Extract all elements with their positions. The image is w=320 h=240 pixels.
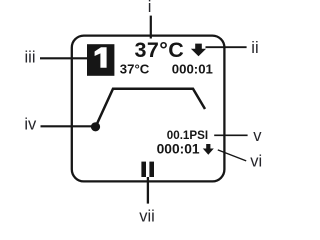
svg-text:00.1PSI: 00.1PSI xyxy=(167,129,208,142)
svg-text:iv: iv xyxy=(24,115,37,133)
leader line vii xyxy=(147,177,149,204)
leader line iii xyxy=(40,57,88,59)
leader line iv xyxy=(41,125,95,127)
svg-text:000:01: 000:01 xyxy=(157,141,200,156)
small down arrow xyxy=(203,144,214,155)
display outline xyxy=(72,36,225,182)
waveform start dot xyxy=(91,122,100,131)
leader line vi xyxy=(218,150,246,161)
pause icon xyxy=(141,162,154,177)
leader line i xyxy=(150,16,152,39)
svg-text:vii: vii xyxy=(139,208,155,226)
large down arrow xyxy=(191,44,206,57)
pressure waveform xyxy=(96,89,206,127)
svg-text:vi: vi xyxy=(250,152,262,170)
svg-text:ii: ii xyxy=(251,39,258,57)
leader line v xyxy=(214,134,247,136)
svg-text:i: i xyxy=(148,0,152,16)
indicator box 1 xyxy=(87,44,114,76)
svg-text:37°C: 37°C xyxy=(135,38,185,62)
svg-text:37°C: 37°C xyxy=(120,62,150,77)
leader line ii xyxy=(206,46,247,48)
svg-text:iii: iii xyxy=(25,49,36,67)
svg-text:v: v xyxy=(253,127,262,145)
svg-text:000:01: 000:01 xyxy=(172,62,213,77)
